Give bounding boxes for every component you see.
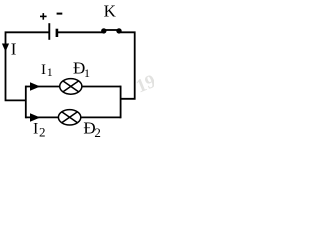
svg-text:1: 1 <box>84 66 90 80</box>
svg-text:2: 2 <box>94 125 101 140</box>
svg-text:K: K <box>104 2 117 21</box>
svg-text:2: 2 <box>39 124 46 139</box>
svg-text:1: 1 <box>47 65 53 79</box>
svg-text:I: I <box>11 40 17 59</box>
svg-text:19: 19 <box>133 71 154 98</box>
svg-text:I: I <box>41 62 46 78</box>
svg-text:I: I <box>33 121 38 138</box>
